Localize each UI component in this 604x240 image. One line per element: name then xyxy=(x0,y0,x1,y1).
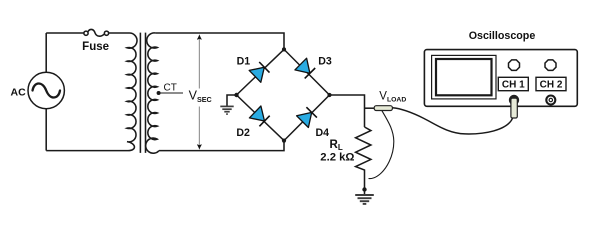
probe ground lead xyxy=(369,111,394,179)
bridge diamond wires xyxy=(237,49,330,140)
svg-text:Fuse: Fuse xyxy=(82,41,109,53)
junction dot center tap xyxy=(157,91,161,95)
diode D2 xyxy=(249,106,269,126)
wire top rail secondary to bridge xyxy=(156,33,284,49)
wire fuse to transformer primary xyxy=(109,32,129,34)
svg-text:2.2 kΩ: 2.2 kΩ xyxy=(320,152,354,164)
probe body xyxy=(374,106,392,111)
knob 1 xyxy=(509,60,520,71)
wire bottom rail secondary to bridge xyxy=(159,141,284,151)
diode D3 xyxy=(295,58,315,78)
diode D1 xyxy=(249,62,269,82)
CH 2 box xyxy=(536,77,566,90)
AC sine wave xyxy=(33,83,61,97)
svg-text:CH 1: CH 1 xyxy=(502,80,525,91)
knob 2 xyxy=(545,60,556,71)
svg-text:D4: D4 xyxy=(316,127,330,139)
oscilloscope screen xyxy=(436,59,492,95)
ground symbol below RL xyxy=(355,195,374,204)
wire left vertical AC bottom xyxy=(45,109,47,151)
diode D4 xyxy=(297,107,317,127)
fuse F1 xyxy=(84,29,109,36)
BNC connector CH1 xyxy=(509,95,519,105)
CT leader line xyxy=(159,92,183,94)
BNC connector CH2 xyxy=(546,96,555,105)
resistor RL zigzag xyxy=(356,127,371,194)
junction dot left corner xyxy=(234,93,238,97)
svg-text:D3: D3 xyxy=(318,56,332,68)
oscilloscope screen bezel xyxy=(432,55,496,99)
transformer T1 secondary winding xyxy=(146,33,159,153)
wire bottom rail AC loop xyxy=(46,150,128,152)
probe plug in CH1 xyxy=(511,98,517,118)
svg-text:Oscilloscope: Oscilloscope xyxy=(469,30,536,42)
svg-text:D1: D1 xyxy=(237,56,251,68)
wire bridge right corner to load node xyxy=(330,95,365,127)
transformer T1 primary winding xyxy=(127,33,137,151)
transformer core xyxy=(140,33,145,153)
oscilloscope body xyxy=(424,50,577,107)
wire left vertical AC top xyxy=(45,33,47,72)
svg-text:CH 2: CH 2 xyxy=(540,80,563,91)
junction dot above RL ground xyxy=(362,187,366,191)
V_SEC measuring arrow xyxy=(197,34,202,150)
wire load node to probe tip xyxy=(365,107,375,109)
svg-text:CT: CT xyxy=(164,82,177,93)
wire bridge left corner to ground xyxy=(227,95,237,106)
AC source circle xyxy=(28,72,64,108)
ground symbol at bridge left xyxy=(220,106,233,114)
junction dot right corner xyxy=(327,93,331,97)
wire top-left from AC to fuse xyxy=(46,32,84,34)
CH 1 box xyxy=(498,77,528,90)
junction dot bottom corner xyxy=(282,139,286,143)
svg-text:D2: D2 xyxy=(236,127,250,139)
junction dot top corner xyxy=(282,47,286,51)
svg-text:AC: AC xyxy=(11,86,27,98)
probe cable to oscilloscope xyxy=(393,108,514,134)
